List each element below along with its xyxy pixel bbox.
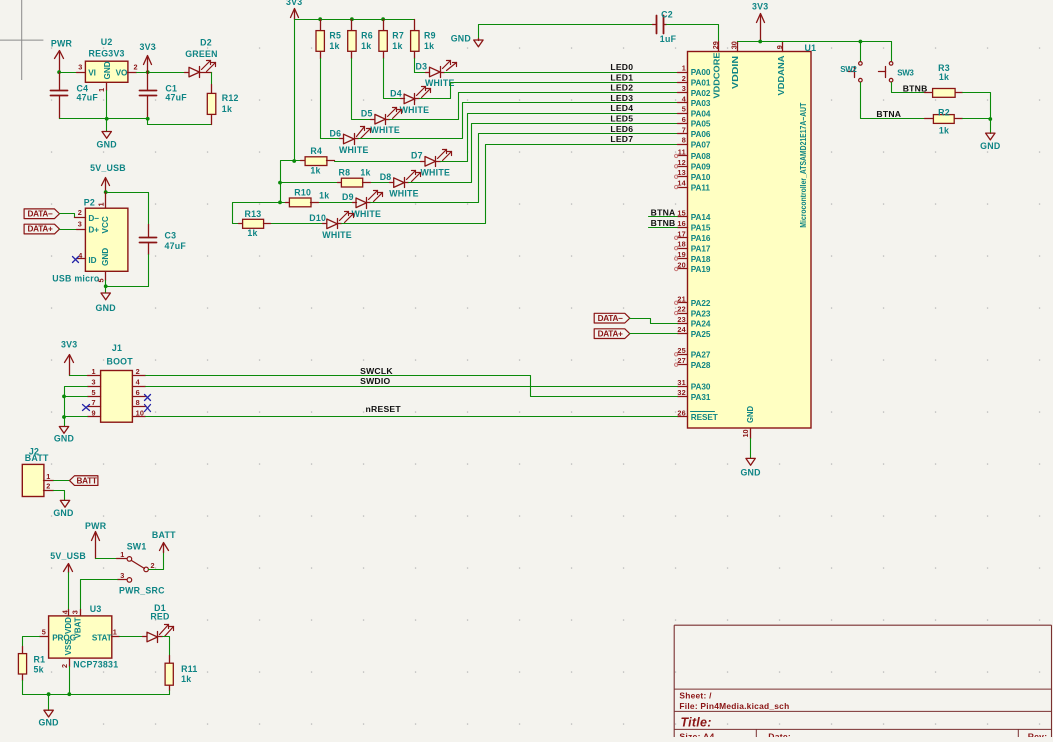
svg-text:8: 8 — [682, 136, 686, 145]
svg-text:1: 1 — [97, 88, 106, 92]
svg-text:U1: U1 — [805, 43, 817, 53]
wire SWCLK from J1 pin2 — [146, 376, 678, 397]
U2 pin 3 stub — [77, 72, 86, 74]
svg-text:1: 1 — [91, 367, 95, 376]
U1 pin 21 PA22 — [678, 302, 688, 304]
power flag PWR (top-left) — [59, 53, 61, 73]
U1 pin 15 PA14 — [678, 216, 688, 218]
svg-text:WHITE: WHITE — [352, 209, 382, 219]
svg-text:PA04: PA04 — [691, 109, 711, 118]
U1 pin 7 PA06 — [678, 133, 688, 135]
resistor R12 — [211, 85, 213, 94]
J1 pin 5 stub — [88, 396, 101, 398]
wire R2 to gnd node — [963, 118, 991, 120]
ground symbol below U1 — [746, 458, 755, 465]
U1 top pin 29 VDDCORE — [718, 42, 720, 52]
junction J1 pin5 gnd — [62, 395, 66, 399]
wire feed to R13 — [233, 203, 281, 224]
ground flag near C2 — [479, 25, 655, 39]
svg-text:29: 29 — [711, 41, 720, 49]
svg-text:1k: 1k — [424, 41, 434, 51]
svg-text:19: 19 — [677, 250, 686, 259]
svg-text:PA07: PA07 — [691, 140, 711, 149]
wire C1 node to R12 bottom — [148, 119, 212, 125]
svg-text:22: 22 — [677, 305, 686, 314]
svg-text:GND: GND — [54, 433, 74, 443]
svg-text:2: 2 — [136, 367, 140, 376]
U1 pin 27 PA28 — [678, 364, 688, 366]
svg-text:VDD: VDD — [64, 617, 73, 634]
svg-text:WHITE: WHITE — [400, 105, 430, 115]
svg-text:R1: R1 — [34, 655, 46, 665]
svg-text:4: 4 — [78, 251, 83, 260]
U3 pin 2 stub (VSS) — [69, 659, 71, 667]
svg-text:U3: U3 — [90, 604, 102, 614]
junction P2 gnd node — [104, 284, 108, 288]
svg-text:R2: R2 — [938, 107, 950, 117]
svg-text:PA05: PA05 — [691, 120, 711, 129]
U1 pin 5 PA04 — [678, 113, 688, 115]
svg-text:PA28: PA28 — [691, 361, 711, 370]
svg-text:1: 1 — [97, 202, 106, 206]
power flag BATT at SW1 — [163, 544, 165, 553]
J1 pin 2 stub — [133, 375, 146, 377]
svg-text:C2: C2 — [661, 10, 673, 20]
wire D6 cathode to LED row — [359, 103, 678, 139]
svg-text:5V_USB: 5V_USB — [90, 163, 126, 173]
resistor R8 — [281, 182, 338, 184]
svg-text:PA17: PA17 — [691, 244, 711, 253]
wire to D9 anode — [319, 202, 353, 204]
svg-text:5: 5 — [97, 278, 106, 282]
U1 pin 26 RESET — [678, 416, 688, 418]
svg-text:File: Pin4Media.kicad_sch: File: Pin4Media.kicad_sch — [679, 701, 789, 711]
wire to D4 anode — [384, 98, 401, 100]
no-connect X on P2 pin 4 — [73, 257, 79, 263]
J2 pin 1 stub — [44, 480, 54, 482]
svg-text:RED: RED — [150, 612, 169, 622]
wire PWR to SW1 pin1 — [96, 558, 117, 560]
svg-text:nRESET: nRESET — [366, 404, 402, 414]
svg-text:GREEN: GREEN — [185, 49, 218, 59]
svg-text:1uF: 1uF — [660, 34, 677, 44]
svg-text:3: 3 — [682, 84, 686, 93]
sheet frame corner cross (gray) — [0, 0, 43, 80]
svg-text:BTNA: BTNA — [876, 109, 901, 119]
svg-text:VCC: VCC — [101, 216, 110, 233]
svg-text:VBAT: VBAT — [73, 617, 82, 638]
no-connect X on J1 pin 7 — [83, 405, 90, 411]
junction at PWR/C4 node — [57, 70, 61, 74]
wire P2 pin5 to gnd node — [105, 281, 107, 287]
svg-text:1: 1 — [120, 550, 124, 559]
wire SWDIO from J1 pin4 — [146, 386, 678, 388]
svg-text:LED0: LED0 — [610, 62, 633, 72]
svg-text:C3: C3 — [165, 231, 177, 241]
U1 pin 31 PA30 — [678, 386, 688, 388]
wire to D7 anode — [335, 161, 421, 163]
svg-text:BOOT: BOOT — [106, 357, 133, 367]
svg-text:STAT: STAT — [92, 634, 112, 643]
svg-text:2: 2 — [682, 74, 686, 83]
svg-text:PA16: PA16 — [691, 234, 711, 243]
svg-text:DATA−: DATA− — [598, 314, 624, 323]
J1 pin 10 stub — [133, 416, 146, 418]
U1 pin 19 PA18 — [678, 258, 688, 260]
wire U2 VO to 3V3 node — [137, 72, 185, 74]
wire D1 to R11 — [163, 637, 170, 656]
svg-text:SWDIO: SWDIO — [360, 376, 390, 386]
net label BTNB at U1 — [649, 227, 678, 229]
svg-text:GND: GND — [103, 61, 112, 79]
svg-text:PA23: PA23 — [691, 309, 711, 318]
P2 pin 1 stub (VCC) — [105, 193, 107, 209]
resistor R13 — [239, 223, 243, 225]
svg-text:18: 18 — [677, 240, 686, 249]
svg-text:2: 2 — [60, 664, 69, 668]
svg-text:6: 6 — [682, 115, 686, 124]
wire D2 cathode to R12 — [211, 73, 213, 85]
svg-text:47uF: 47uF — [77, 93, 99, 103]
wire C2 to U1 VDDCORE — [667, 25, 719, 42]
ground symbol at R2/R3 — [990, 119, 992, 134]
vertical 3V3 feed for button resistors — [294, 20, 296, 161]
capacitor C2 (horizontal) — [656, 16, 658, 34]
svg-text:DATA+: DATA+ — [28, 225, 54, 234]
junction at R4 feed — [292, 159, 296, 163]
svg-text:4: 4 — [682, 94, 687, 103]
U1 pin 4 PA03 — [678, 102, 688, 104]
svg-text:PWR: PWR — [51, 39, 73, 49]
svg-text:R8: R8 — [339, 168, 351, 178]
wire R9 to LED row — [414, 59, 416, 73]
wire to D8 anode — [371, 182, 390, 184]
svg-text:LED4: LED4 — [610, 103, 633, 113]
J1 pin 6 stub — [133, 396, 146, 398]
LED D9 — [353, 202, 357, 204]
svg-text:R7: R7 — [392, 31, 404, 41]
switch SW1 SPDT — [117, 558, 127, 560]
svg-text:5: 5 — [91, 388, 95, 397]
U1 pin 20 PA19 — [678, 268, 688, 270]
svg-text:R12: R12 — [222, 93, 239, 103]
svg-text:BTNA: BTNA — [651, 208, 676, 218]
wire 5V_USB node to C3 — [106, 192, 149, 194]
U1 pin 13 PA10 — [678, 176, 688, 178]
svg-text:PA18: PA18 — [691, 255, 711, 264]
resistor R4 — [295, 160, 301, 162]
svg-text:GND: GND — [101, 248, 110, 266]
U1 pin 1 PA00 — [678, 72, 688, 74]
junction R7 top — [381, 17, 385, 21]
wire D7 cathode to LED row — [441, 114, 678, 162]
svg-text:GND: GND — [980, 141, 1000, 151]
junction 5V_USB node — [104, 190, 108, 194]
wire U2 pin1 down to ground rail — [106, 91, 108, 119]
svg-text:Date:: Date: — [768, 731, 791, 737]
P2 pin 5 stub (GND) — [105, 272, 107, 281]
wire DATA- to P2 pin2 — [60, 214, 77, 218]
svg-text:BATT: BATT — [25, 453, 49, 463]
wire PWR to U2 pin3 — [60, 72, 77, 74]
title block frame — [674, 625, 1051, 737]
svg-text:PWR_SRC: PWR_SRC — [119, 586, 165, 596]
U1 pin 23 PA24 — [678, 323, 688, 325]
svg-text:GND: GND — [53, 508, 73, 518]
wire DATA+ to PA25 — [630, 333, 678, 335]
J1 pin 3 stub — [88, 386, 101, 388]
power flag 5V_USB at P2 — [105, 179, 107, 193]
svg-text:PA25: PA25 — [691, 330, 711, 339]
svg-text:21: 21 — [677, 294, 686, 303]
svg-text:5V_USB: 5V_USB — [50, 551, 86, 561]
U1 pin 2 PA01 — [678, 82, 688, 84]
svg-text:WHITE: WHITE — [322, 230, 352, 240]
svg-text:3V3: 3V3 — [752, 2, 768, 12]
svg-text:BATT: BATT — [152, 530, 176, 540]
svg-text:PA03: PA03 — [691, 99, 711, 108]
svg-text:D3: D3 — [416, 61, 428, 71]
svg-text:GND: GND — [38, 718, 58, 728]
U1 pin 6 PA05 — [678, 123, 688, 125]
U1 pin 3 PA02 — [678, 92, 688, 94]
connector J1 body — [101, 371, 133, 423]
svg-text:REG3V3: REG3V3 — [88, 48, 124, 58]
U1 pin 32 PA31 — [678, 396, 688, 398]
regulator U2 body — [85, 61, 128, 82]
svg-text:DATA−: DATA− — [28, 209, 54, 218]
power flag 3V3 at J1 — [69, 356, 71, 376]
wire J2 pin1 to BATT label — [54, 480, 70, 482]
svg-text:DATA+: DATA+ — [598, 329, 624, 338]
svg-text:25: 25 — [677, 346, 686, 355]
svg-text:BATT: BATT — [77, 476, 97, 485]
svg-text:BTNB: BTNB — [903, 83, 928, 93]
svg-text:D−: D− — [88, 214, 99, 223]
svg-text:26: 26 — [677, 408, 686, 417]
wire D10 cathode to LED row — [342, 145, 678, 224]
svg-text:J1: J1 — [112, 343, 122, 353]
LED D5 — [371, 119, 375, 121]
P2 pin 3 stub — [77, 229, 86, 231]
svg-text:17: 17 — [677, 229, 686, 238]
svg-text:3: 3 — [78, 220, 82, 229]
svg-text:D4: D4 — [390, 88, 402, 98]
wire J2 pin2 to gnd — [54, 491, 65, 501]
junction at R10 feed — [278, 201, 282, 205]
svg-text:VO: VO — [116, 68, 128, 77]
LED D1 — [143, 636, 147, 638]
wire to D5 anode — [352, 119, 371, 121]
svg-text:PA14: PA14 — [691, 213, 711, 222]
svg-text:2: 2 — [46, 482, 50, 491]
resistor R1 — [22, 647, 24, 654]
svg-text:1k: 1k — [181, 674, 191, 684]
svg-text:BTNB: BTNB — [651, 218, 676, 228]
svg-text:1: 1 — [113, 628, 117, 637]
J1 pin 9 stub — [88, 416, 101, 418]
no-connect X on J1 pin 6 — [145, 395, 151, 401]
svg-text:16: 16 — [677, 219, 686, 228]
resistor R3 — [925, 92, 933, 94]
svg-text:WHITE: WHITE — [421, 167, 451, 177]
hierarchical label BATT — [70, 476, 98, 486]
USB connector P2 body — [85, 208, 128, 271]
LED D4 — [401, 98, 405, 100]
svg-text:D8: D8 — [380, 172, 392, 182]
svg-text:PA10: PA10 — [691, 173, 711, 182]
svg-text:PA00: PA00 — [691, 68, 711, 77]
ground symbol below P2 — [105, 287, 107, 293]
wire R5 to LED row — [320, 59, 322, 139]
LED D6 — [340, 138, 344, 140]
svg-text:9: 9 — [91, 409, 95, 418]
LED D10 — [323, 223, 327, 225]
svg-text:SW1: SW1 — [127, 541, 147, 551]
U1 pin 11 PA08 — [678, 155, 688, 157]
svg-text:1k: 1k — [361, 41, 371, 51]
svg-text:13: 13 — [677, 168, 686, 177]
junction R6 top — [350, 17, 354, 21]
svg-text:Size: A4: Size: A4 — [679, 731, 714, 737]
svg-text:GND: GND — [740, 467, 760, 477]
svg-text:PA06: PA06 — [691, 130, 711, 139]
wire U3 VSS to gnd rail — [69, 667, 71, 695]
capacitor C4 — [59, 73, 61, 91]
J1 pin 1 stub — [88, 375, 101, 377]
resistor R2 — [925, 118, 934, 120]
svg-text:9: 9 — [775, 45, 784, 49]
svg-text:3V3: 3V3 — [61, 340, 77, 350]
U3 gnd rail — [23, 694, 170, 696]
resistor R5 — [320, 20, 322, 31]
svg-text:10: 10 — [136, 409, 145, 418]
svg-text:PWR: PWR — [85, 521, 107, 531]
svg-text:2: 2 — [151, 561, 155, 570]
wire U3 PROG to R1 — [23, 637, 40, 647]
wire SW1 pin2 to BATT flag — [149, 551, 164, 570]
svg-text:VDDCORE: VDDCORE — [713, 52, 722, 99]
svg-text:R4: R4 — [310, 146, 322, 156]
svg-text:2: 2 — [134, 63, 138, 72]
U1 pin 12 PA09 — [678, 166, 688, 168]
svg-text:D7: D7 — [411, 151, 423, 161]
net label BTNA at U1 — [649, 216, 678, 218]
ground symbol below J2 — [60, 500, 69, 507]
svg-text:30: 30 — [729, 41, 738, 49]
svg-text:3: 3 — [120, 571, 124, 580]
svg-text:1: 1 — [682, 64, 686, 73]
svg-text:LED6: LED6 — [610, 124, 633, 134]
connector J2 body — [22, 464, 44, 496]
charger U3 body — [49, 616, 112, 658]
power flag 3V3 at regulator output — [147, 57, 149, 73]
svg-text:LED5: LED5 — [610, 114, 633, 124]
push button SW2 — [860, 42, 862, 62]
junction 3V3 flag on rail — [758, 40, 762, 44]
svg-text:LED2: LED2 — [610, 83, 633, 93]
junction U3 VSS on rail — [67, 692, 71, 696]
resistor R7 — [383, 20, 385, 31]
svg-text:Title:: Title: — [681, 715, 712, 729]
U1 bottom pin 10 GND — [750, 429, 752, 439]
svg-text:7: 7 — [91, 398, 95, 407]
svg-text:15: 15 — [677, 209, 686, 218]
wire D4 cathode to LED row — [420, 83, 678, 99]
ground symbol below J1 — [59, 427, 68, 434]
svg-text:GND: GND — [96, 303, 116, 313]
junction U2 gnd rail — [105, 117, 109, 121]
U1 pin 18 PA17 — [678, 248, 688, 250]
power flag PWR at SW1 — [95, 534, 97, 559]
svg-text:NCP73831: NCP73831 — [73, 660, 118, 670]
svg-text:1k: 1k — [392, 41, 402, 51]
svg-text:GND: GND — [746, 406, 755, 423]
U1 pin 22 PA23 — [678, 313, 688, 315]
SW1 pin 3 — [127, 578, 132, 583]
svg-text:8: 8 — [136, 398, 140, 407]
wire to D10 anode — [271, 223, 323, 225]
J1 pin 4 stub — [133, 386, 146, 388]
svg-text:1k: 1k — [939, 126, 949, 136]
svg-text:PA02: PA02 — [691, 89, 711, 98]
LED D2 — [185, 72, 189, 74]
svg-text:R5: R5 — [329, 31, 341, 41]
svg-text:VSS: VSS — [64, 639, 73, 656]
wire R3 to gnd node — [963, 93, 991, 119]
svg-text:D6: D6 — [330, 128, 342, 138]
capacitor C1 — [147, 73, 149, 91]
U1 pin 17 PA16 — [678, 237, 688, 239]
svg-text:3V3: 3V3 — [286, 0, 302, 7]
svg-text:RESET: RESET — [691, 413, 718, 422]
svg-text:3: 3 — [78, 63, 82, 72]
LED D7 — [421, 161, 425, 163]
svg-text:5: 5 — [682, 105, 686, 114]
svg-text:R6: R6 — [361, 31, 373, 41]
no-connect X on J1 pin 8 — [145, 405, 151, 412]
svg-text:PA11: PA11 — [691, 183, 711, 192]
wire to D6 anode — [321, 138, 340, 140]
hierarchical label DATA- (left) — [24, 209, 59, 219]
svg-text:1k: 1k — [319, 191, 329, 201]
U1 pin 16 PA15 — [678, 227, 688, 229]
ground rail under U2 — [60, 118, 148, 120]
svg-text:P2: P2 — [84, 198, 95, 208]
svg-text:6: 6 — [136, 388, 140, 397]
hierarchical label DATA+ at U1 — [594, 329, 630, 339]
svg-text:U2: U2 — [101, 37, 113, 47]
wire D3 cathode to U1 — [445, 72, 678, 74]
power flag 5V_USB at U3 — [68, 565, 70, 573]
wire D8 cathode to LED row — [409, 124, 678, 183]
svg-text:Microcontroller_ATSAMD21E17A−A: Microcontroller_ATSAMD21E17A−AUT — [799, 103, 808, 228]
J1 pin 7 stub — [88, 406, 101, 408]
wire nRESET from J1 pin10 — [146, 416, 678, 418]
svg-text:4: 4 — [136, 378, 141, 387]
svg-text:D5: D5 — [361, 109, 373, 119]
U2 pin 2 stub — [128, 72, 137, 74]
svg-text:PA31: PA31 — [691, 393, 711, 402]
ground symbol below U3 — [48, 695, 50, 711]
wire STAT to D1 — [120, 636, 143, 638]
svg-text:R10: R10 — [294, 188, 311, 198]
svg-text:3: 3 — [91, 378, 95, 387]
wire to D3 anode — [415, 72, 426, 74]
svg-text:D10: D10 — [309, 213, 326, 223]
svg-text:D+: D+ — [88, 225, 99, 234]
wire R1 to gnd rail — [22, 681, 24, 695]
